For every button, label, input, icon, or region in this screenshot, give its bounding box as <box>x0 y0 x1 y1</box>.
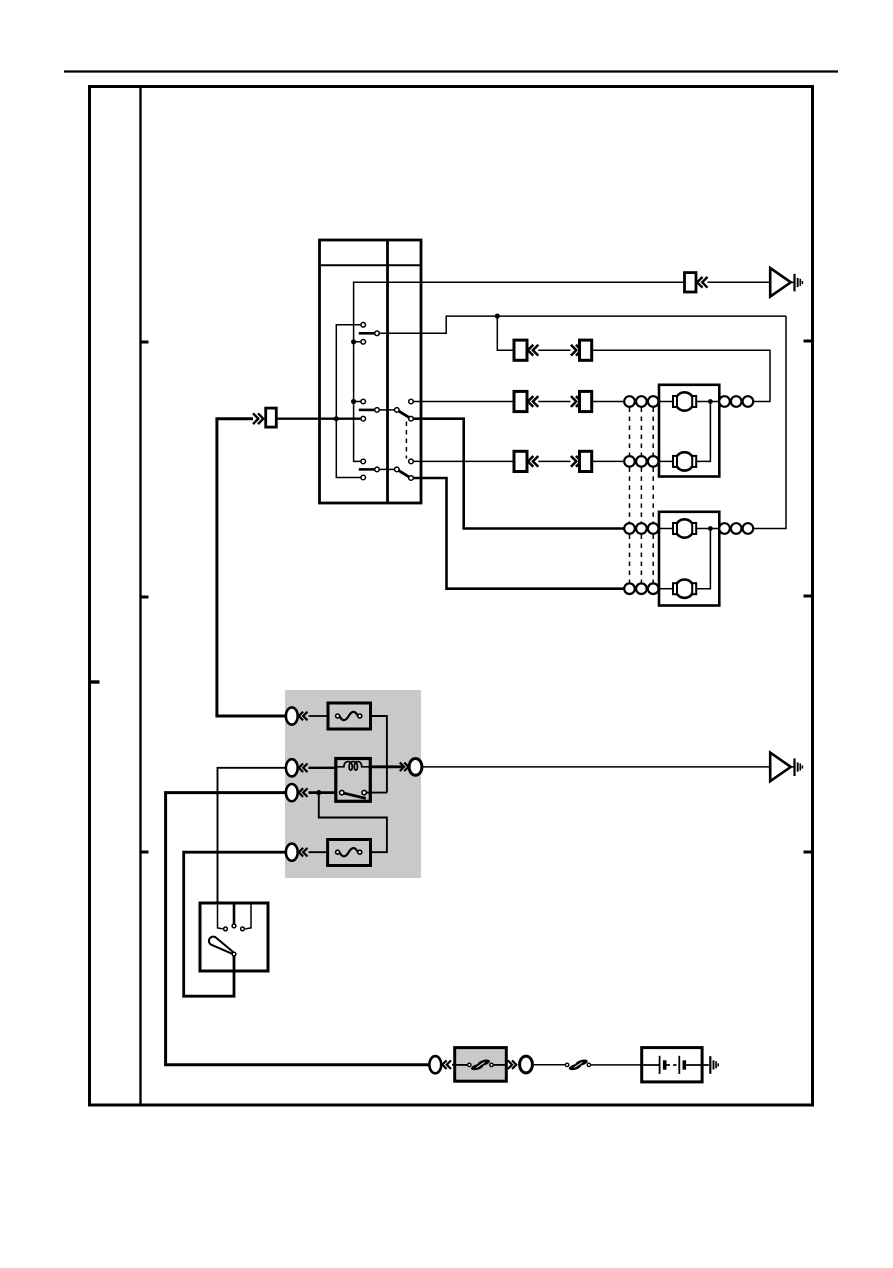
ground G3 (battery ground) <box>710 1056 718 1074</box>
SW1 pole-3 wiper arm <box>359 467 414 480</box>
fusible link FL1 (shaded box) <box>455 1048 507 1082</box>
battery B1 box <box>642 1048 709 1082</box>
power window master switch SW1 body <box>320 240 422 503</box>
SW2 key lever <box>209 937 233 954</box>
SW1 contact pins (left section) <box>361 323 366 480</box>
motor M1b symbol <box>659 452 696 470</box>
wire: fuse F1 to relay contact <box>371 716 387 793</box>
M1 internal junction dot <box>708 399 713 404</box>
M2 internal link wire <box>696 529 710 589</box>
power window motor assembly M2 (rear) box <box>659 512 719 606</box>
connector boundary dashed links <box>630 408 654 583</box>
connector pair row 1 (male half) <box>571 340 592 360</box>
connector P6 (battery row left) <box>429 1056 454 1073</box>
SW1 pole-2 fixed contact (up) <box>409 399 514 404</box>
motor M1a symbol <box>659 392 719 410</box>
frame tick left outer y682 <box>90 680 100 683</box>
connector C1 on ground wire <box>685 273 771 292</box>
frame tick right y341 <box>804 340 813 343</box>
wire: branch down to connector pair row 1 <box>497 316 514 350</box>
motor M2a symbol <box>659 519 719 537</box>
SW1 pole-3 fixed contact <box>409 459 514 464</box>
connector pair row 3 (male half) <box>571 451 624 471</box>
SW2 contact 2 (middle) <box>233 903 236 924</box>
wire: pole-2 output to front motor up <box>413 419 624 529</box>
connector P2 (to relay coil) <box>286 759 336 776</box>
M1 output bullets <box>719 396 753 407</box>
wire: relay coil output to connector P5 <box>370 765 403 768</box>
SW2 contact 3 (right) <box>245 903 251 929</box>
M1 internal link wire <box>696 402 710 462</box>
M2 internal junction dot <box>708 526 713 531</box>
wire: pole-3 output to rear motor down <box>413 478 624 589</box>
fuse F2 (ignition feed) <box>328 840 371 866</box>
SW1 feed row wire into switch <box>276 418 361 420</box>
connector J1 at master switch feed <box>253 408 276 427</box>
diagram frame border <box>90 87 813 1106</box>
connector pair row 1 (female half) <box>514 340 570 360</box>
motor M2b symbol <box>659 580 696 598</box>
M2 output bullets <box>719 523 753 534</box>
SW1 mechanical link (dashed) <box>405 422 407 459</box>
frame tick left inner y852 <box>141 851 149 854</box>
ignition switch SW2 box <box>200 903 268 971</box>
multi-pin connector bullets row C (motor 2 up) <box>624 523 658 534</box>
multi-pin connector bullets row B (motor 1 down) <box>624 456 658 467</box>
SW1 pole-2 wiper arm <box>359 408 414 421</box>
frame tick left inner y342 <box>141 341 149 344</box>
frame tick right y852 <box>804 851 813 854</box>
power window relay R1 <box>336 759 387 802</box>
connector P5 (relay coil to ground) <box>400 759 770 776</box>
relay block shaded panel <box>285 690 421 878</box>
frame tick left inner y597 <box>141 596 149 599</box>
connector P7 (fusible link to battery) <box>508 1056 566 1073</box>
connector pair row 3 (female half) <box>514 451 570 471</box>
node: pole-1 branch junction <box>495 314 500 319</box>
SW1 internal bus wire (ground side) <box>354 282 685 461</box>
ground G1 (body ground, top right) <box>770 268 802 297</box>
SW1 bus junction dot 2 <box>351 399 356 404</box>
frame tick right y596 <box>804 595 813 598</box>
multi-pin connector bullets row A (motor 1 up) <box>624 396 658 407</box>
title separator line <box>64 70 838 72</box>
connector pair row 2 (female half) <box>514 391 570 411</box>
connector P3 (relay contact feed) <box>286 784 336 801</box>
wire: right side drop to rear motor feed <box>753 316 786 528</box>
SW2 lever pivot <box>232 952 236 956</box>
node: relay contact / fuse F2 junction <box>316 790 321 795</box>
ground G2 (body ground, right middle) <box>770 753 802 782</box>
multi-pin connector bullets row D (motor 2 down) <box>624 583 658 594</box>
wire: junction to fuse F2 <box>319 793 387 853</box>
wire: fuse F2 to ignition switch lever <box>184 852 286 996</box>
frame inner column line <box>139 87 141 1106</box>
wire: battery feed to relay contact <box>166 793 430 1065</box>
connector P1 (to fuse F1) <box>286 707 328 724</box>
wire: relay coil to ignition switch contact <box>218 768 287 903</box>
fuse F1 (power window) <box>328 703 371 729</box>
SW1 pole-1 wiper arm <box>359 316 786 336</box>
SW1 bus junction dot 1 <box>351 339 356 344</box>
SW1 feed junction dot <box>334 416 339 421</box>
SW1 internal feed bus <box>336 325 360 478</box>
fusible link FL2 (inline) <box>565 1058 641 1071</box>
connector P4 (fuse F2 to ignition switch) <box>286 844 328 861</box>
wire: row1 to front motor return <box>592 350 770 401</box>
wire: feed from relay fuse to master switch <box>217 419 286 716</box>
SW2 contact 1 (left) <box>218 903 223 929</box>
connector pair row 2 (male half) <box>571 391 624 411</box>
power window motor assembly M1 (front) box <box>659 385 719 477</box>
